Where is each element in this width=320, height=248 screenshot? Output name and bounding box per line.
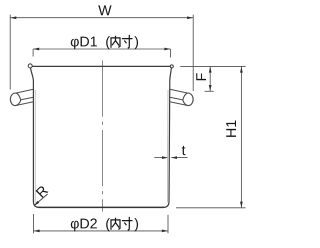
dimension F arrowheads (209, 67, 212, 91)
left handle end cap (10, 93, 20, 106)
label phiD2 opening paren (106, 218, 110, 231)
label phiD2 closing paren (134, 218, 138, 231)
label phiD2 kanji nai (111, 218, 120, 229)
label phiD2 kanji sun (123, 218, 132, 230)
H1 bottom extension line (176, 207, 246, 209)
label W (98, 5, 111, 15)
label phiD1 closing paren (134, 36, 138, 49)
label t (182, 146, 186, 155)
pot rim line (32, 65, 171, 67)
right handle tube top line (170, 89, 188, 93)
dimension H1 line (240, 66, 242, 207)
right handle end cap (183, 93, 193, 106)
dimension t right arrowhead (171, 156, 177, 159)
dimension phiD2 right extension line (167, 215, 169, 233)
R leader line (35, 194, 48, 205)
top extension line for F and H1 (180, 65, 245, 67)
label phiD1 kanji nai (111, 36, 120, 47)
right handle tube bottom line (170, 102, 188, 106)
dimension W left extension line (9, 15, 11, 90)
label phiD1 opening paren (106, 36, 110, 49)
left handle tube bottom line (16, 102, 34, 106)
label F (rotated) (196, 73, 206, 80)
dimension t right line (171, 157, 187, 159)
pot centerline (102, 61, 104, 212)
dimension phiD2 line (34, 230, 169, 232)
label R (rotated 45) (36, 185, 49, 198)
dimension H1 arrowheads (240, 67, 243, 208)
dimension W line (10, 17, 193, 19)
dimension phiD1 right stub (170, 49, 172, 58)
dimension phiD2 left extension line (33, 214, 35, 233)
dimension F line (209, 66, 211, 91)
R leader arrowhead (34, 201, 39, 206)
pot right wall inner (166, 90, 169, 203)
pot bottom line (39, 206, 164, 208)
dimension phiD1 left stub (32, 49, 34, 57)
dimension t left arrowhead (162, 156, 168, 159)
label phiD1 kanji sun (123, 36, 132, 48)
pot rim bead left (28, 64, 32, 68)
dimension phiD2 arrowheads (34, 230, 168, 233)
label phiD1 (71, 37, 97, 50)
dimension W arrowheads (10, 16, 193, 19)
right handle tube mid line (170, 97, 183, 100)
F bottom tick at handle top level (205, 90, 214, 92)
dimension phiD1 arrowheads (33, 48, 170, 51)
label phiD2 (71, 218, 97, 231)
dimension t left line (154, 157, 167, 159)
pot right wall outer (163, 68, 171, 208)
pot left wall inner (34, 90, 36, 203)
dimension phiD1 line (33, 48, 170, 50)
pot rim bead right (170, 65, 173, 68)
label H1 (rotated) (226, 121, 236, 137)
left handle tube top line (16, 89, 33, 93)
pot left wall outer (31, 68, 40, 208)
dimension W right extension line (192, 15, 194, 91)
left handle tube mid line (21, 97, 34, 100)
